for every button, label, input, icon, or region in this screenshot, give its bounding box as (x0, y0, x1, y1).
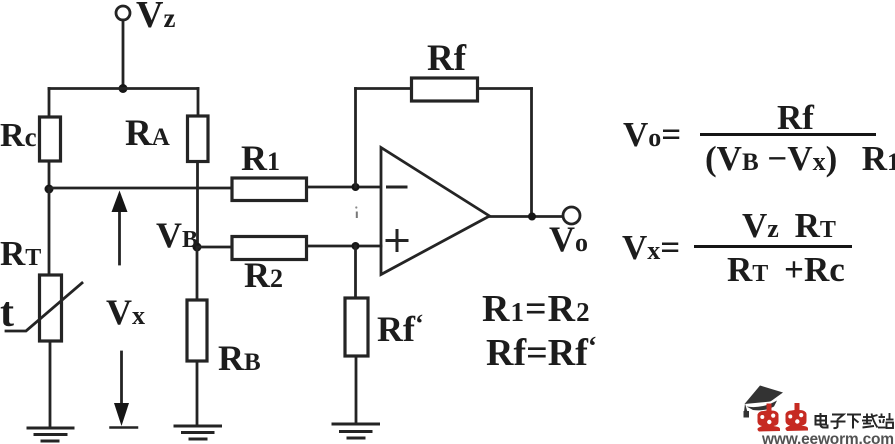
logo text zi (831, 415, 846, 429)
logo graduation cap (744, 386, 784, 418)
wire top bus horizontal (49, 87, 198, 90)
logo text dian (816, 413, 828, 428)
equation Vo fraction bar (700, 133, 876, 136)
svg-text:Rf‘: Rf‘ (377, 309, 424, 349)
svg-text:Vz: Vz (136, 0, 175, 36)
svg-text:Rf: Rf (427, 38, 467, 79)
svg-text:VB: VB (156, 215, 198, 255)
svg-text:(VB −Vx) R1: (VB −Vx) R1 (705, 139, 895, 178)
terminal Vo (563, 207, 580, 224)
wire node A to R1 (49, 187, 232, 190)
ground at RT (28, 428, 73, 441)
svg-text:R1: R1 (241, 138, 280, 178)
svg-text:Vz RT: Vz RT (742, 206, 836, 245)
svg-text:RT: RT (0, 234, 41, 273)
equation Vx fraction bar (694, 245, 852, 248)
junction dot output node (528, 213, 536, 221)
wire feedback left vertical (354, 89, 357, 188)
resistor Rc (40, 117, 61, 161)
wire feedback right vertical (530, 89, 533, 217)
terminal Vz (116, 6, 130, 20)
junction dot non-inverting node (352, 242, 360, 250)
logo text xia (847, 415, 861, 429)
wire Rf' to ground (355, 356, 358, 424)
svg-text:R1=R2: R1=R2 (482, 288, 591, 330)
junction dot inverting node (352, 183, 360, 191)
wire VB to RB (196, 247, 199, 300)
wire node A down to RT (48, 189, 51, 275)
junction node A (45, 185, 54, 194)
op-amp minus sign (388, 186, 407, 189)
junction dot top bus (119, 84, 128, 93)
wire RA top (197, 89, 200, 117)
svg-text:RB: RB (218, 338, 261, 378)
logo text zai (862, 414, 878, 428)
resistor Rf' (345, 298, 368, 356)
logo chong character 1 (757, 404, 780, 432)
svg-text:RT +Rc: RT +Rc (727, 250, 845, 289)
svg-text:Vx=: Vx= (622, 228, 680, 267)
logo chong character 2 (785, 403, 808, 431)
wire RT to ground (49, 341, 52, 428)
wire left branch down to Rc (48, 89, 51, 118)
thermistor RT diagonal (6, 283, 82, 331)
ground at RB (175, 426, 221, 439)
op-amp U1 (381, 148, 490, 275)
thermistor RT (40, 275, 62, 341)
wire R1 to op-amp inverting input (307, 186, 382, 189)
wire op-amp output (490, 215, 563, 218)
resistor R2 (232, 237, 307, 260)
wire Rc to node A (48, 161, 51, 189)
resistor R1 (232, 178, 307, 201)
wire VB to R2 (197, 246, 232, 249)
svg-text:Vx: Vx (106, 292, 145, 332)
svg-text:t: t (0, 290, 14, 336)
svg-text:Vo: Vo (549, 219, 588, 259)
svg-text:RA: RA (125, 113, 170, 154)
wire feedback top right (478, 87, 532, 90)
svg-text:Rf=Rf‘: Rf=Rf‘ (486, 331, 597, 374)
svg-text:Vo=: Vo= (623, 115, 681, 154)
resistor Rf (412, 78, 478, 101)
svg-text:Rf: Rf (777, 98, 814, 137)
logo text zhan (878, 413, 894, 428)
resistor RA (188, 116, 209, 162)
wire RA bottom to node VB (196, 162, 199, 248)
Vx arrow bottom bar (111, 426, 138, 429)
svg-text:Rc: Rc (0, 117, 37, 154)
wire feedback top left (356, 87, 412, 90)
Vx arrow up (118, 211, 121, 264)
svg-text:www.eeworm.com: www.eeworm.com (761, 431, 894, 444)
op-amp plus sign (387, 239, 407, 242)
wire R2 to op-amp non-inverting input (307, 245, 382, 248)
wire Vz to top bus (122, 20, 125, 89)
wire non-inverting node down to Rf' (354, 246, 357, 298)
ground at Rf' (333, 424, 379, 438)
scan artifact dash (356, 212, 358, 219)
junction node VB (193, 243, 202, 252)
wire RB to ground (196, 361, 199, 426)
Vx arrow down (120, 352, 123, 404)
resistor RB (187, 300, 207, 361)
